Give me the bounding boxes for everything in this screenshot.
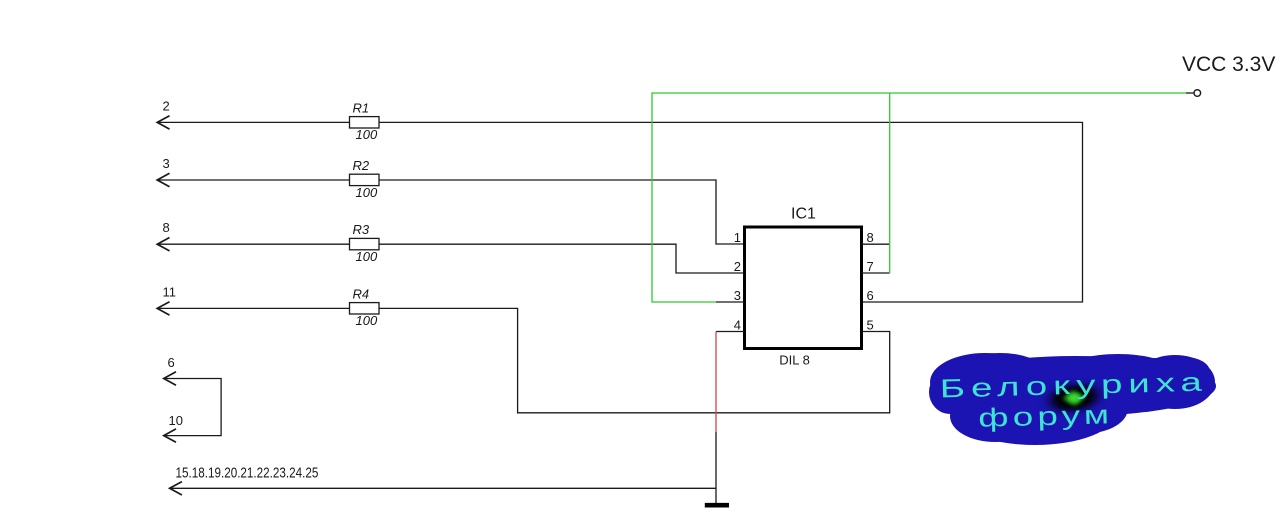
wire VCC terminal lead	[1186, 92, 1194, 94]
wire VCC green branch to pin 7	[889, 93, 891, 273]
svg-text:8: 8	[867, 230, 874, 245]
svg-text:6: 6	[168, 355, 175, 370]
resistor R2	[350, 174, 380, 185]
svg-text:100: 100	[356, 185, 378, 200]
resistor R4	[350, 303, 380, 314]
arrow pin 6	[164, 372, 176, 385]
wire net pin6 to pin10 bracket	[164, 379, 221, 436]
wire net R3 left (pin8 to R3)	[157, 243, 349, 245]
logo blob Белокуриха форум	[929, 353, 1216, 445]
VCC terminal circle	[1194, 90, 1201, 97]
pin 3 stub wire	[716, 301, 745, 303]
wire net R2 left (pin3 to R2)	[157, 179, 349, 181]
wire VCC green net top	[652, 93, 1186, 302]
svg-text:R1: R1	[353, 100, 370, 115]
svg-text:2: 2	[734, 259, 741, 274]
svg-text:2: 2	[163, 99, 170, 114]
svg-text:11: 11	[163, 284, 177, 299]
wire red pin 4 net	[715, 332, 717, 433]
arrow pin 8	[157, 238, 169, 251]
resistor R1	[350, 117, 380, 128]
svg-text:4: 4	[734, 318, 741, 333]
svg-text:3: 3	[163, 156, 170, 171]
svg-text:100: 100	[356, 249, 378, 264]
wire net R1 left (pin2 to R1)	[157, 121, 349, 123]
IC U1 box	[745, 227, 862, 349]
pin 4 stub wire	[716, 331, 745, 333]
svg-text:DIL 8: DIL 8	[779, 353, 810, 368]
svg-text:10: 10	[169, 413, 183, 428]
svg-text:форум: форум	[978, 399, 1114, 433]
svg-text:5: 5	[867, 318, 874, 333]
svg-text:R4: R4	[353, 286, 370, 301]
svg-text:VCC 3.3V: VCC 3.3V	[1182, 53, 1275, 76]
svg-text:R3: R3	[353, 222, 370, 237]
resistor R3	[350, 238, 380, 249]
wire net R4 right to IC pin 5	[379, 308, 890, 412]
ground symbol	[705, 503, 729, 508]
svg-text:15.18.19.20.21.22.23.24.25: 15.18.19.20.21.22.23.24.25	[176, 464, 319, 481]
wire bottom net to ground node	[170, 487, 716, 489]
arrow bottom net	[170, 482, 182, 495]
wire net R2 right to IC pin 1	[379, 180, 745, 244]
wire net R4 left (pin11 to R4)	[157, 307, 349, 309]
wire ground vertical	[715, 432, 717, 503]
arrow pin 10	[164, 429, 176, 442]
wire net R1 right to pin 6	[379, 122, 1083, 302]
svg-text:100: 100	[356, 127, 378, 142]
arrow pin 2	[157, 116, 169, 129]
wire net R3 right to IC pin 2	[379, 244, 745, 273]
pin 7 stub wire	[862, 272, 890, 274]
pin 8 stub wire	[862, 243, 890, 245]
arrow pin 3	[157, 173, 169, 186]
svg-text:IC1: IC1	[791, 206, 816, 223]
svg-text:100: 100	[356, 313, 378, 328]
svg-text:7: 7	[867, 259, 874, 274]
svg-text:3: 3	[734, 288, 741, 303]
svg-text:R2: R2	[353, 158, 370, 173]
svg-text:1: 1	[734, 230, 741, 245]
arrow pin 11	[157, 302, 169, 315]
svg-text:8: 8	[163, 220, 170, 235]
svg-text:6: 6	[867, 288, 874, 303]
